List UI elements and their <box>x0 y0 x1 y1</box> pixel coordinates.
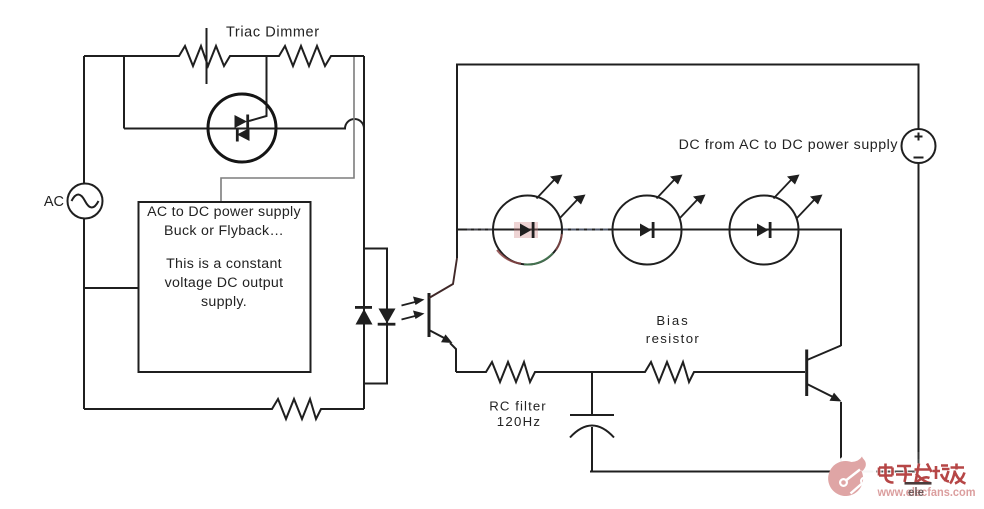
svg-text:This is a constant: This is a constant <box>166 256 282 272</box>
svg-text:120Hz: 120Hz <box>497 414 542 429</box>
svg-text:supply.: supply. <box>201 294 247 310</box>
svg-text:ele: ele <box>908 487 924 499</box>
svg-text:RC filter: RC filter <box>489 399 547 414</box>
svg-text:Bias: Bias <box>656 313 689 328</box>
svg-text:DC from AC to DC power supply: DC from AC to DC power supply <box>679 137 899 153</box>
svg-text:resistor: resistor <box>646 331 700 346</box>
svg-text:AC: AC <box>44 194 64 210</box>
svg-text:Buck or Flyback…: Buck or Flyback… <box>164 223 284 239</box>
svg-text:AC to DC power supply: AC to DC power supply <box>147 204 301 220</box>
svg-text:www.elecfans.com: www.elecfans.com <box>877 485 976 499</box>
svg-text:voltage DC output: voltage DC output <box>165 275 284 291</box>
svg-text:Triac Dimmer: Triac Dimmer <box>226 25 320 41</box>
